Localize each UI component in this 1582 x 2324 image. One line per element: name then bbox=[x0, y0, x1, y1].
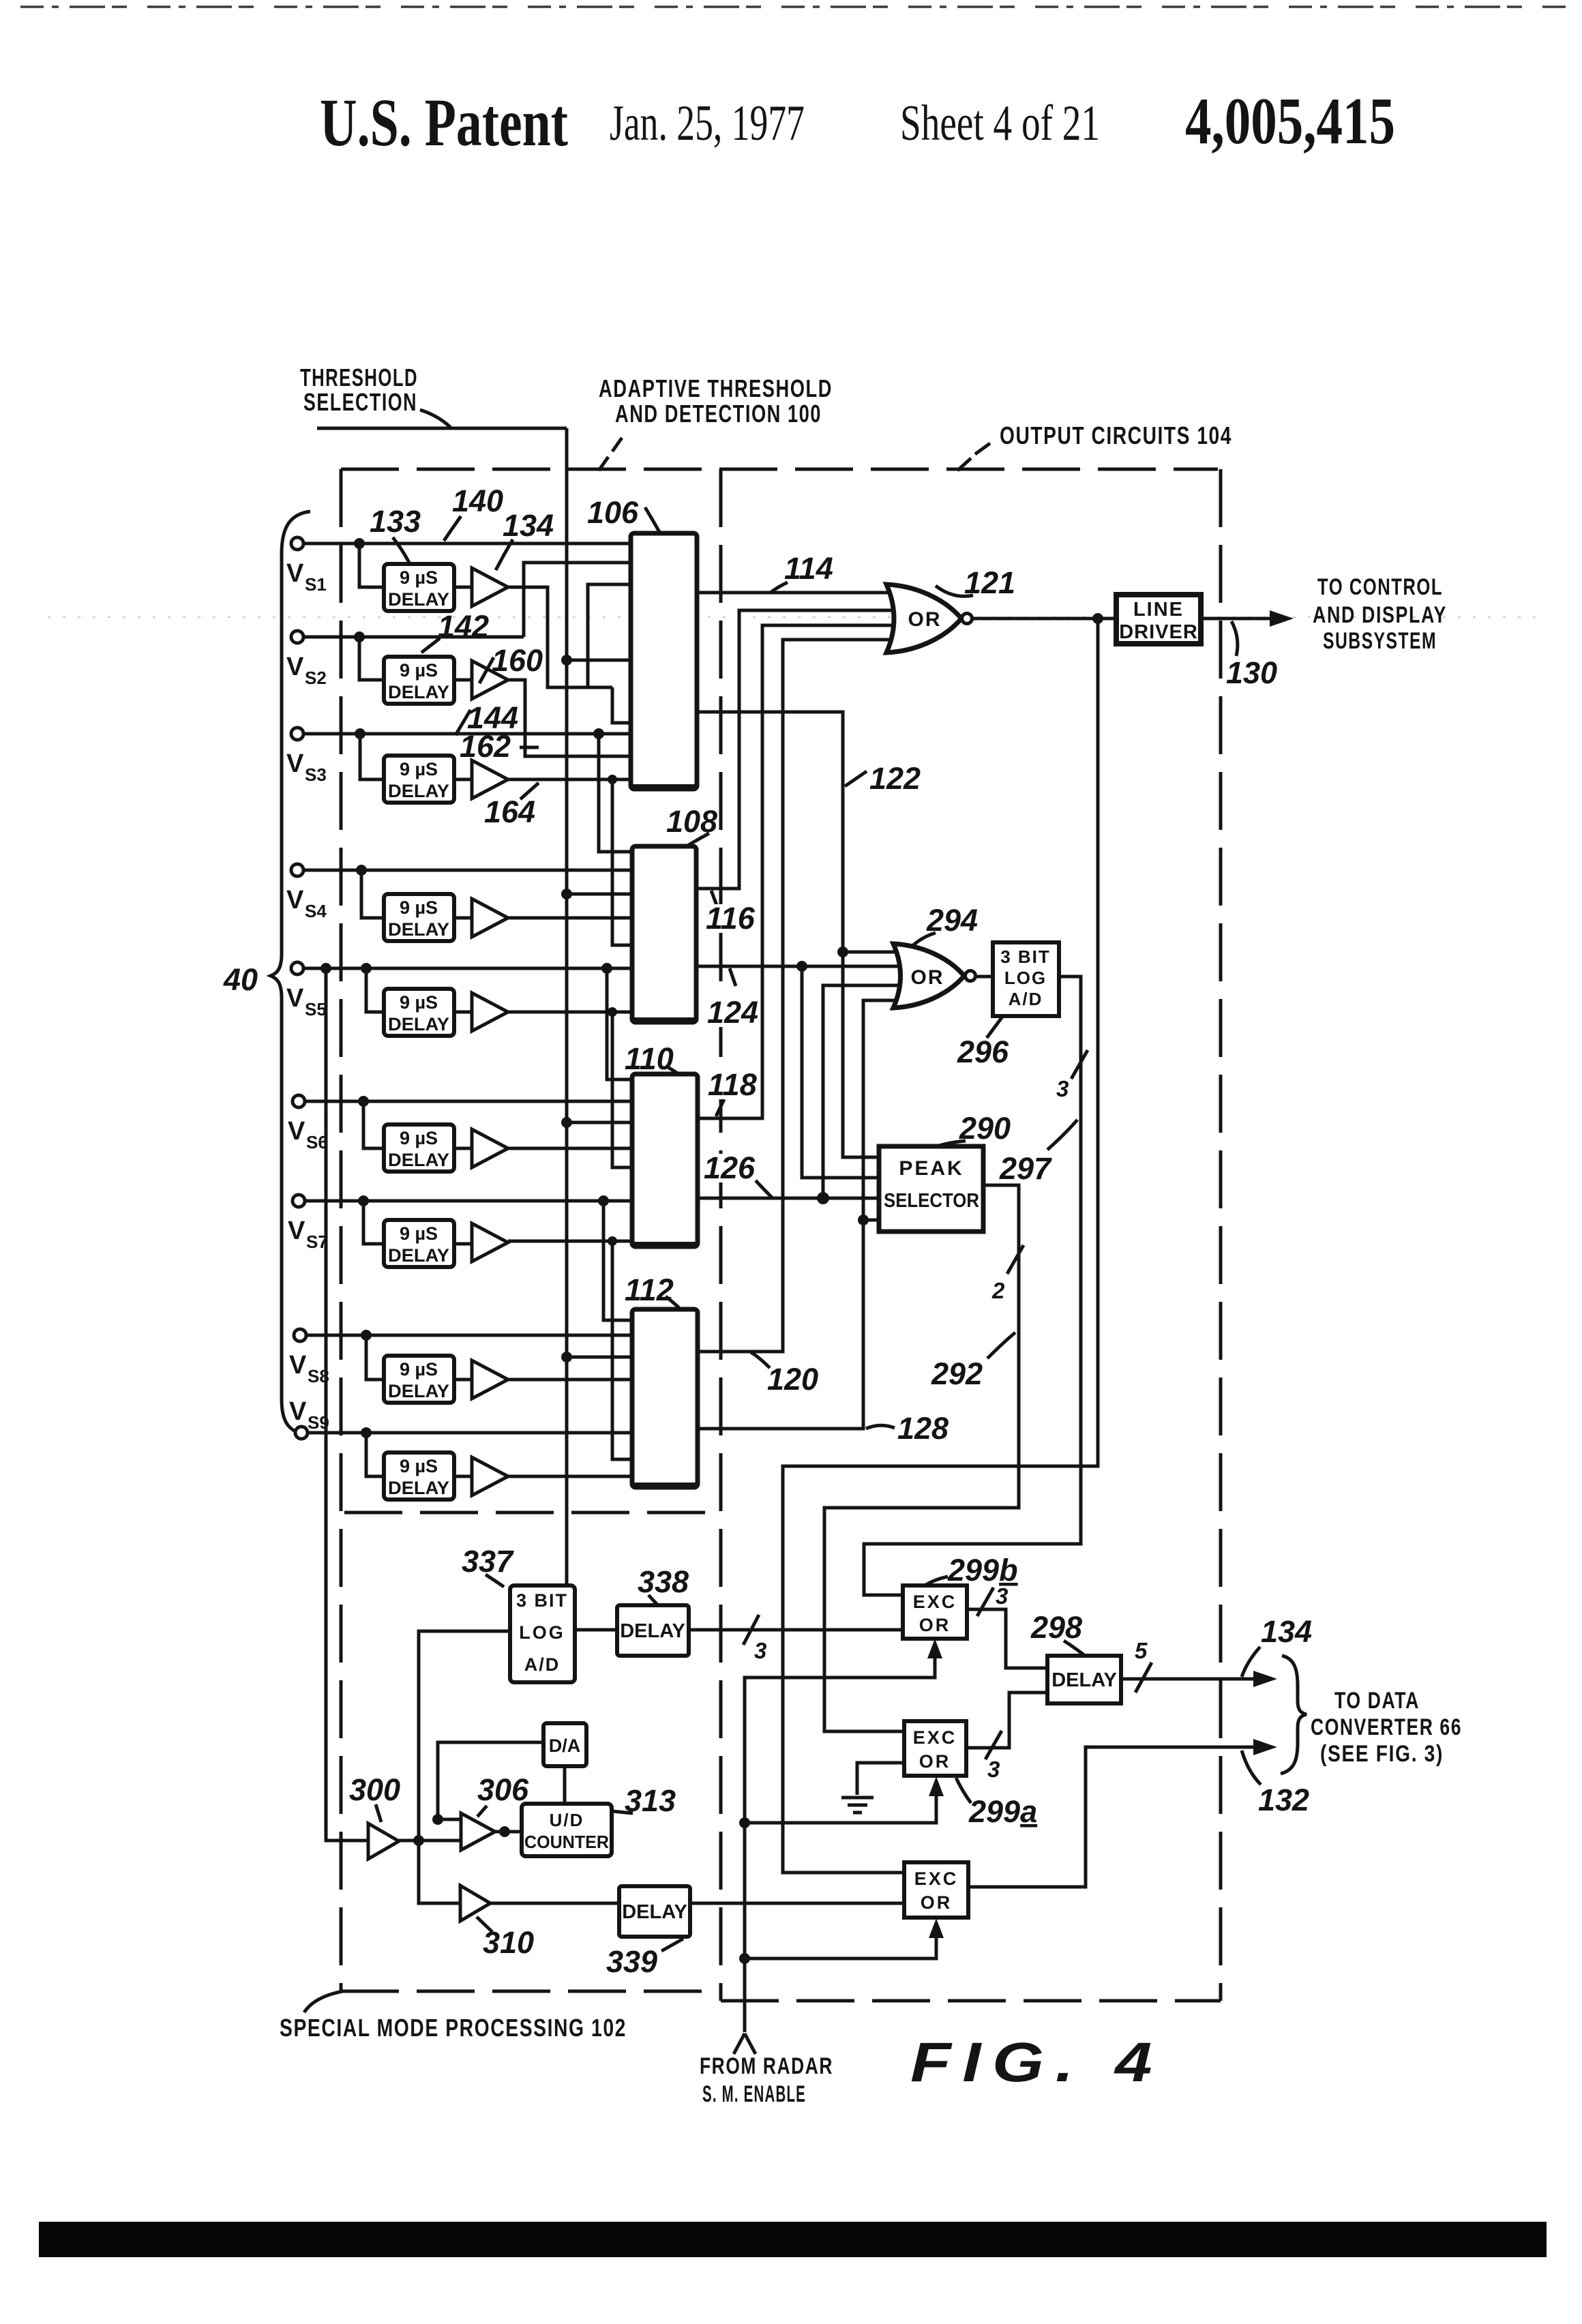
scan artifact top edge dashes bbox=[20, 5, 1568, 8]
svg-text:160: 160 bbox=[492, 643, 543, 678]
wire buffer8 output bbox=[508, 1378, 632, 1382]
svg-text:PEAK: PEAK bbox=[899, 1157, 964, 1180]
terminal VS6 line bbox=[305, 1100, 632, 1103]
svg-text:LOG: LOG bbox=[519, 1622, 565, 1643]
label leader 120 bbox=[751, 1352, 770, 1368]
svg-text:OR: OR bbox=[919, 1751, 951, 1772]
label leader 112 bbox=[666, 1296, 681, 1309]
svg-text:EXC: EXC bbox=[914, 1868, 959, 1889]
svg-text:DELAY: DELAY bbox=[388, 919, 449, 940]
svg-text:9 µS: 9 µS bbox=[400, 1128, 438, 1148]
svg-text:V: V bbox=[286, 886, 304, 914]
bus slash 297 3 bbox=[1071, 1050, 1088, 1079]
wire 122 box106 down riser bbox=[697, 712, 879, 1157]
svg-text:2: 2 bbox=[991, 1278, 1005, 1303]
svg-text:(SEE FIG. 3): (SEE FIG. 3) bbox=[1320, 1741, 1444, 1767]
label leader 121 bbox=[936, 586, 973, 596]
label leader 142 bbox=[421, 638, 440, 653]
label leader 132 output bbox=[1242, 1751, 1261, 1785]
wire buffer310 to delay339 bbox=[490, 1902, 619, 1905]
wire D/A feedback to buffer306 bbox=[438, 1742, 543, 1819]
brace 40 bbox=[271, 511, 310, 1435]
svg-text:V: V bbox=[289, 1397, 307, 1426]
terminal VS8 line bbox=[306, 1334, 632, 1337]
svg-text:164: 164 bbox=[484, 794, 535, 829]
wire 124 riser to peak selector bbox=[802, 966, 879, 1178]
svg-text:40: 40 bbox=[223, 962, 258, 997]
svg-text:DELAY: DELAY bbox=[388, 589, 449, 610]
wire threshold stub box108 bbox=[567, 893, 632, 896]
wire buffer7 output bbox=[508, 1240, 632, 1243]
svg-text:5: 5 bbox=[1135, 1638, 1148, 1663]
wire buffer5 riser to box110 bbox=[612, 1012, 632, 1167]
delay box D1 bbox=[384, 564, 454, 611]
delay box D5 bbox=[384, 989, 454, 1036]
label leader 294 bbox=[912, 933, 936, 947]
svg-text:AND DISPLAY: AND DISPLAY bbox=[1313, 602, 1447, 628]
wire buffer5 output bbox=[508, 1011, 632, 1014]
wire VS3 riser to box108 bbox=[599, 734, 632, 852]
svg-text:338: 338 bbox=[638, 1564, 689, 1599]
delay box D4 bbox=[384, 894, 454, 941]
line driver box bbox=[1116, 595, 1201, 644]
svg-text:290: 290 bbox=[959, 1111, 1011, 1146]
wire VS5 riser to box110 bbox=[607, 968, 632, 1079]
label leader 122 bbox=[845, 771, 867, 786]
label leader special mode bbox=[304, 1991, 343, 2012]
wire EXCOR299a output to delay298 bbox=[966, 1693, 1047, 1748]
detector box 108 bbox=[632, 846, 696, 1022]
svg-text:132: 132 bbox=[1258, 1783, 1309, 1817]
wire delay2 to buffer bbox=[454, 679, 472, 682]
svg-text:299b: 299b bbox=[947, 1553, 1018, 1588]
label leader 130 bbox=[1232, 621, 1238, 656]
wire line driver junction down bbox=[783, 619, 1098, 1873]
wire delay1 to buffer bbox=[454, 586, 472, 589]
terminal VS7 line bbox=[305, 1200, 632, 1203]
svg-text:SUBSYSTEM: SUBSYSTEM bbox=[1323, 628, 1437, 654]
wire 3bit AD337 to delay338 bbox=[575, 1628, 617, 1632]
wire line driver output arrow bbox=[1202, 617, 1275, 621]
label leader 116 bbox=[711, 891, 717, 907]
bus slash 299a out 3 bbox=[985, 1731, 1002, 1759]
wire U/D counter to D/A bbox=[563, 1766, 567, 1804]
bus slash peak 2 bbox=[1007, 1245, 1024, 1274]
svg-text:106: 106 bbox=[587, 495, 639, 530]
wire radar branch to EXCOR3 bbox=[745, 1924, 936, 1958]
svg-text:OR: OR bbox=[908, 608, 942, 631]
svg-text:DELAY: DELAY bbox=[388, 1150, 449, 1170]
label leader 298 bbox=[1064, 1641, 1085, 1656]
wire 116 box108 riser to OR121 bbox=[696, 610, 895, 889]
wire buffer4 output bbox=[508, 917, 632, 920]
delay box D9 bbox=[384, 1452, 454, 1500]
svg-text:S2: S2 bbox=[305, 668, 327, 688]
label leader 140 bbox=[444, 516, 461, 541]
svg-text:FIG. 4: FIG. 4 bbox=[910, 2031, 1163, 2094]
wire delay298 output arrow 134 bbox=[1121, 1678, 1259, 1681]
peak selector box 290 bbox=[879, 1146, 983, 1232]
delay box D6 bbox=[384, 1124, 454, 1172]
wire delay stub VS9 bbox=[366, 1433, 384, 1476]
wire VS7 riser to box112 bbox=[603, 1201, 632, 1320]
svg-text:313: 313 bbox=[625, 1783, 676, 1818]
svg-text:V: V bbox=[288, 1117, 305, 1146]
svg-text:DELAY: DELAY bbox=[388, 1478, 449, 1498]
label leader 290 bbox=[934, 1141, 966, 1147]
wire VS2 riser into box106 bbox=[524, 563, 631, 637]
bus slash 338 output 3 bbox=[743, 1615, 759, 1645]
svg-text:3: 3 bbox=[996, 1583, 1008, 1609]
svg-text:A/D: A/D bbox=[1009, 989, 1043, 1009]
buffer B4 bbox=[472, 899, 508, 937]
svg-text:292: 292 bbox=[931, 1356, 983, 1391]
buffer 306 comparator bbox=[461, 1813, 495, 1850]
wire delay7 to buffer bbox=[454, 1242, 472, 1246]
svg-text:FROM RADAR: FROM RADAR bbox=[700, 2053, 833, 2079]
svg-text:9 µS: 9 µS bbox=[400, 567, 438, 588]
svg-text:122: 122 bbox=[869, 761, 921, 796]
detector box 112 bbox=[632, 1309, 698, 1487]
svg-text:Sheet 4 of 21: Sheet 4 of 21 bbox=[900, 95, 1100, 151]
svg-text:OR: OR bbox=[911, 966, 944, 989]
buffer B7 bbox=[472, 1223, 508, 1262]
label leader 310 bbox=[477, 1917, 492, 1932]
OR gate 121 bbox=[886, 584, 961, 653]
wire delay8 to buffer bbox=[454, 1378, 472, 1382]
wire 120 box112 riser to OR121 bbox=[698, 640, 890, 1352]
svg-text:DELAY: DELAY bbox=[622, 1901, 687, 1923]
svg-text:OR: OR bbox=[921, 1892, 953, 1913]
svg-text:116: 116 bbox=[706, 901, 756, 936]
wire delay stub VS8 bbox=[366, 1335, 384, 1380]
terminal VS9 line bbox=[308, 1431, 632, 1435]
svg-text:162: 162 bbox=[460, 729, 511, 764]
wire delay9 to buffer bbox=[454, 1475, 472, 1478]
label leader 296 bbox=[987, 1017, 1002, 1038]
svg-text:S5: S5 bbox=[305, 999, 327, 1019]
svg-text:114: 114 bbox=[784, 551, 833, 586]
wire buffer160 output riser bbox=[508, 680, 631, 756]
wire 118 box110 riser to OR121 bbox=[696, 625, 895, 1118]
wire 124 box108 to OR294 bbox=[696, 965, 901, 968]
wire EXCOR299b output to delay298 bbox=[967, 1609, 1047, 1668]
label leader 134 bbox=[496, 539, 513, 570]
svg-text:3 BIT: 3 BIT bbox=[516, 1590, 568, 1611]
svg-text:DELAY: DELAY bbox=[1051, 1669, 1117, 1691]
svg-text:S3: S3 bbox=[305, 764, 327, 785]
svg-text:9 µS: 9 µS bbox=[400, 759, 438, 779]
svg-text:OR: OR bbox=[919, 1615, 951, 1635]
svg-text:A/D: A/D bbox=[524, 1654, 561, 1675]
svg-text:SELECTION: SELECTION bbox=[303, 388, 417, 416]
svg-text:COUNTER: COUNTER bbox=[524, 1832, 609, 1852]
wire threshold stub box110 bbox=[567, 1121, 632, 1124]
label leader 338 bbox=[648, 1595, 659, 1606]
svg-text:U/D: U/D bbox=[550, 1810, 584, 1830]
buffer 310 bbox=[460, 1886, 490, 1921]
header text U.S. Patent bbox=[320, 85, 1395, 160]
svg-text:S1: S1 bbox=[305, 574, 327, 595]
wire riser into box106 input 1060 bbox=[612, 687, 631, 723]
wire from radar SM enable riser bbox=[745, 1645, 935, 2032]
svg-text:DELAY: DELAY bbox=[620, 1620, 685, 1642]
wire peak selector 2-line to EXCOR299a bbox=[824, 1185, 1019, 1731]
wire radar branch to EXCOR299a bbox=[745, 1783, 936, 1823]
wire delay4 to buffer bbox=[454, 917, 472, 920]
wire stub 128 to peak selector bbox=[863, 1219, 879, 1222]
svg-text:339: 339 bbox=[606, 1944, 657, 1979]
buffer B5 bbox=[472, 993, 508, 1031]
svg-text:Jan. 25, 1977: Jan. 25, 1977 bbox=[610, 95, 805, 151]
wire node to 3bit AD337 bbox=[419, 1631, 510, 1841]
wire delay stub VS3 bbox=[360, 734, 384, 779]
wire buffer134 output weave bbox=[508, 587, 612, 687]
label leader 114 bbox=[771, 582, 788, 593]
delay box 338 bbox=[617, 1605, 689, 1656]
svg-text:298: 298 bbox=[1030, 1610, 1082, 1645]
svg-text:S8: S8 bbox=[308, 1366, 329, 1386]
svg-text:130: 130 bbox=[1226, 655, 1277, 690]
label leader 339 bbox=[661, 1939, 683, 1951]
wire node to buffer310 bbox=[419, 1841, 460, 1903]
label leader 144 bbox=[456, 710, 471, 735]
label leader 128 bbox=[866, 1425, 895, 1429]
label leader 110 bbox=[666, 1066, 680, 1075]
wire buffer7 riser to box112 bbox=[612, 1241, 632, 1459]
buffer 300 bbox=[368, 1823, 399, 1859]
terminal VS5 line bbox=[303, 967, 632, 970]
wire 128 box112 riser bbox=[698, 1000, 896, 1429]
svg-text:306: 306 bbox=[477, 1772, 529, 1807]
svg-text:128: 128 bbox=[897, 1411, 949, 1446]
svg-text:S4: S4 bbox=[305, 901, 327, 921]
svg-text:294: 294 bbox=[926, 903, 978, 938]
label leader 124 bbox=[730, 968, 736, 986]
label leader 313 bbox=[612, 1811, 633, 1813]
svg-text:120: 120 bbox=[767, 1362, 818, 1397]
svg-text:140: 140 bbox=[452, 483, 503, 518]
svg-text:SELECTOR: SELECTOR bbox=[884, 1190, 979, 1212]
label leader 306 bbox=[477, 1806, 487, 1817]
delay box D7 bbox=[384, 1220, 454, 1267]
svg-text:DELAY: DELAY bbox=[388, 1245, 449, 1266]
svg-text:3: 3 bbox=[754, 1638, 766, 1663]
wire riser into box106 input 857 bbox=[588, 584, 631, 687]
OR gate 294 bbox=[893, 944, 964, 1008]
svg-text:V: V bbox=[286, 559, 304, 588]
svg-text:110: 110 bbox=[625, 1041, 674, 1076]
svg-text:V: V bbox=[286, 749, 304, 778]
svg-text:4,005,415: 4,005,415 bbox=[1185, 85, 1395, 158]
leader from THRESHOLD SELECTION label bbox=[420, 410, 451, 428]
delay box D8 bbox=[384, 1356, 454, 1403]
svg-text:3: 3 bbox=[1056, 1076, 1069, 1101]
svg-text:U.S. Patent: U.S. Patent bbox=[320, 85, 568, 160]
label leader 118 bbox=[716, 1099, 724, 1116]
terminal circles VS1-VS9 bbox=[291, 537, 308, 1439]
label leader 292 bbox=[987, 1332, 1015, 1358]
wire delay stub VS6 bbox=[363, 1101, 384, 1148]
wire VS5 special mode feed bbox=[326, 968, 368, 1841]
EXC OR box 299b bbox=[903, 1585, 967, 1639]
label leader 160 bbox=[479, 657, 494, 683]
wire delay stub VS1 bbox=[359, 543, 384, 587]
svg-text:9 µS: 9 µS bbox=[400, 1456, 438, 1476]
svg-text:3: 3 bbox=[987, 1757, 1000, 1782]
threshold selection line bbox=[317, 428, 567, 1585]
svg-text:9 µS: 9 µS bbox=[400, 992, 438, 1013]
wire stub 122 to OR294 bbox=[843, 951, 897, 954]
label leader 106 bbox=[645, 507, 659, 532]
delay box 339 bbox=[619, 1886, 690, 1937]
svg-text:S7: S7 bbox=[306, 1232, 328, 1252]
wire buffer164 output bbox=[508, 778, 631, 781]
detector box 110 bbox=[632, 1074, 698, 1247]
leader to ADAPTIVE THRESHOLD label bbox=[599, 438, 622, 471]
terminal VS2 line bbox=[303, 636, 524, 639]
U/D counter box 313 bbox=[522, 1804, 612, 1856]
box text 9us delay rows bbox=[388, 567, 449, 1498]
svg-text:9 µS: 9 µS bbox=[400, 1359, 438, 1380]
wire EXCOR3 output line 132 arrow bbox=[968, 1747, 1259, 1887]
wire delay stub VS5 bbox=[366, 968, 384, 1012]
wire 126 riser to OR294 bbox=[823, 985, 901, 1198]
svg-text:126: 126 bbox=[704, 1150, 756, 1185]
bus slash 299b out 3 bbox=[977, 1588, 994, 1616]
wire buffer306 to U/D counter bbox=[495, 1830, 522, 1834]
3bit log A/D box 337 bbox=[510, 1585, 575, 1682]
scan artifact faint dotted line bbox=[48, 616, 1548, 618]
scanner black bar bottom bbox=[39, 2222, 1547, 2257]
dashed divider output circuits bbox=[721, 469, 1221, 2001]
svg-text:S. M. ENABLE: S. M. ENABLE bbox=[702, 2081, 806, 2107]
wire 297 bus A/D296 to EXCOR299b bbox=[864, 977, 1081, 1595]
terminal VS1 line bbox=[303, 542, 631, 546]
label leader 337 bbox=[486, 1575, 504, 1587]
label leader 299a bbox=[956, 1778, 971, 1803]
svg-text:299a: 299a bbox=[968, 1794, 1037, 1829]
svg-text:AND DETECTION 100: AND DETECTION 100 bbox=[615, 400, 822, 428]
label leader 297 bbox=[1047, 1120, 1077, 1150]
svg-text:DELAY: DELAY bbox=[388, 1014, 449, 1034]
svg-text:9 µS: 9 µS bbox=[400, 660, 438, 681]
detector box 106 bbox=[631, 533, 697, 789]
svg-text:337: 337 bbox=[462, 1544, 514, 1579]
delay box 298 bbox=[1047, 1656, 1121, 1703]
svg-text:134: 134 bbox=[503, 508, 554, 543]
svg-text:TO DATA: TO DATA bbox=[1334, 1688, 1420, 1714]
wire buffer300 output node bbox=[399, 1839, 461, 1843]
brace to data converter bbox=[1281, 1656, 1307, 1774]
svg-text:121: 121 bbox=[964, 565, 1015, 600]
svg-text:DELAY: DELAY bbox=[388, 781, 449, 801]
svg-text:EXC: EXC bbox=[913, 1727, 957, 1748]
svg-text:DELAY: DELAY bbox=[388, 682, 449, 702]
label leader 126 bbox=[756, 1180, 772, 1197]
wire 114 box106 to OR121 bbox=[697, 591, 889, 595]
svg-text:SPECIAL MODE PROCESSING 102: SPECIAL MODE PROCESSING 102 bbox=[280, 2014, 627, 2042]
label leader 164 bbox=[520, 783, 539, 799]
terminal VS3 line bbox=[303, 732, 631, 736]
wire delay3 to buffer bbox=[454, 778, 472, 781]
svg-text:133: 133 bbox=[370, 504, 421, 539]
svg-text:9 µS: 9 µS bbox=[400, 897, 438, 918]
bus slash delay298 out 5 bbox=[1135, 1663, 1152, 1693]
label leader 134 output bbox=[1242, 1647, 1260, 1677]
wire delay338 output to EXCOR299b bbox=[689, 1628, 903, 1632]
svg-text:ADAPTIVE THRESHOLD: ADAPTIVE THRESHOLD bbox=[599, 374, 833, 402]
D/A box bbox=[543, 1723, 586, 1766]
label backing bbox=[700, 904, 755, 1182]
ground wire for EXCOR299a bbox=[857, 1763, 904, 1795]
svg-text:TO CONTROL: TO CONTROL bbox=[1317, 574, 1443, 600]
wire threshold stub box106 bbox=[567, 659, 631, 662]
svg-text:LINE: LINE bbox=[1133, 599, 1184, 621]
svg-text:V: V bbox=[286, 984, 304, 1013]
label dash 162 bbox=[520, 746, 539, 749]
svg-text:DRIVER: DRIVER bbox=[1119, 621, 1198, 643]
svg-text:118: 118 bbox=[708, 1067, 757, 1102]
wire delay339 output to EXCOR3 bbox=[690, 1902, 904, 1905]
wire threshold stub box112 bbox=[567, 1356, 632, 1359]
svg-text:9 µS: 9 µS bbox=[400, 1223, 438, 1244]
svg-text:S9: S9 bbox=[308, 1412, 329, 1433]
svg-text:THRESHOLD: THRESHOLD bbox=[300, 363, 418, 391]
dashed box adaptive threshold and detection 100 bbox=[341, 469, 1218, 1991]
wire 126 box110 to peak selector bbox=[696, 1197, 879, 1200]
leader to OUTPUT CIRCUITS label bbox=[957, 443, 990, 471]
wire delay6 to buffer bbox=[454, 1147, 472, 1150]
delay box D2 bbox=[384, 657, 454, 704]
svg-text:3 BIT: 3 BIT bbox=[1000, 947, 1051, 967]
wire delay5 to buffer bbox=[454, 1011, 472, 1014]
terminal VS4 line bbox=[303, 869, 632, 872]
buffer B3 bbox=[472, 760, 508, 799]
svg-text:112: 112 bbox=[625, 1272, 674, 1307]
ground symbol bbox=[841, 1798, 874, 1813]
3bit log A/D box 296 bbox=[993, 942, 1059, 1016]
svg-text:OUTPUT CIRCUITS 104: OUTPUT CIRCUITS 104 bbox=[1000, 421, 1232, 449]
svg-text:D/A: D/A bbox=[549, 1735, 581, 1756]
svg-text:296: 296 bbox=[957, 1034, 1009, 1069]
buffer B6 bbox=[472, 1129, 508, 1167]
EXC OR box 299a bbox=[904, 1721, 966, 1776]
wire delay stub VS4 bbox=[361, 870, 384, 918]
svg-text:310: 310 bbox=[483, 1925, 534, 1960]
detector box bottom emphasis bbox=[633, 788, 696, 1486]
wire buffer164 riser to box108 bbox=[612, 779, 632, 945]
svg-text:DELAY: DELAY bbox=[388, 1381, 449, 1401]
svg-text:V: V bbox=[288, 1217, 305, 1245]
wire OR294 output bbox=[975, 975, 993, 979]
from radar input arrowhead bbox=[734, 2033, 756, 2054]
wire buffer6 output bbox=[508, 1147, 632, 1150]
label leader 108 bbox=[687, 833, 709, 846]
wire delay stub VS2 bbox=[359, 637, 384, 680]
svg-text:124: 124 bbox=[707, 995, 758, 1030]
EXC OR box third bbox=[904, 1862, 968, 1918]
svg-text:142: 142 bbox=[438, 609, 489, 644]
buffer B8 bbox=[472, 1360, 508, 1399]
svg-text:108: 108 bbox=[666, 804, 717, 839]
wire buffer9 output bbox=[508, 1475, 632, 1478]
svg-text:LOG: LOG bbox=[1004, 968, 1047, 988]
svg-text:S6: S6 bbox=[306, 1132, 328, 1152]
svg-text:V: V bbox=[286, 653, 304, 681]
buffer B2 bbox=[472, 661, 508, 699]
label leader 133 bbox=[393, 537, 409, 563]
